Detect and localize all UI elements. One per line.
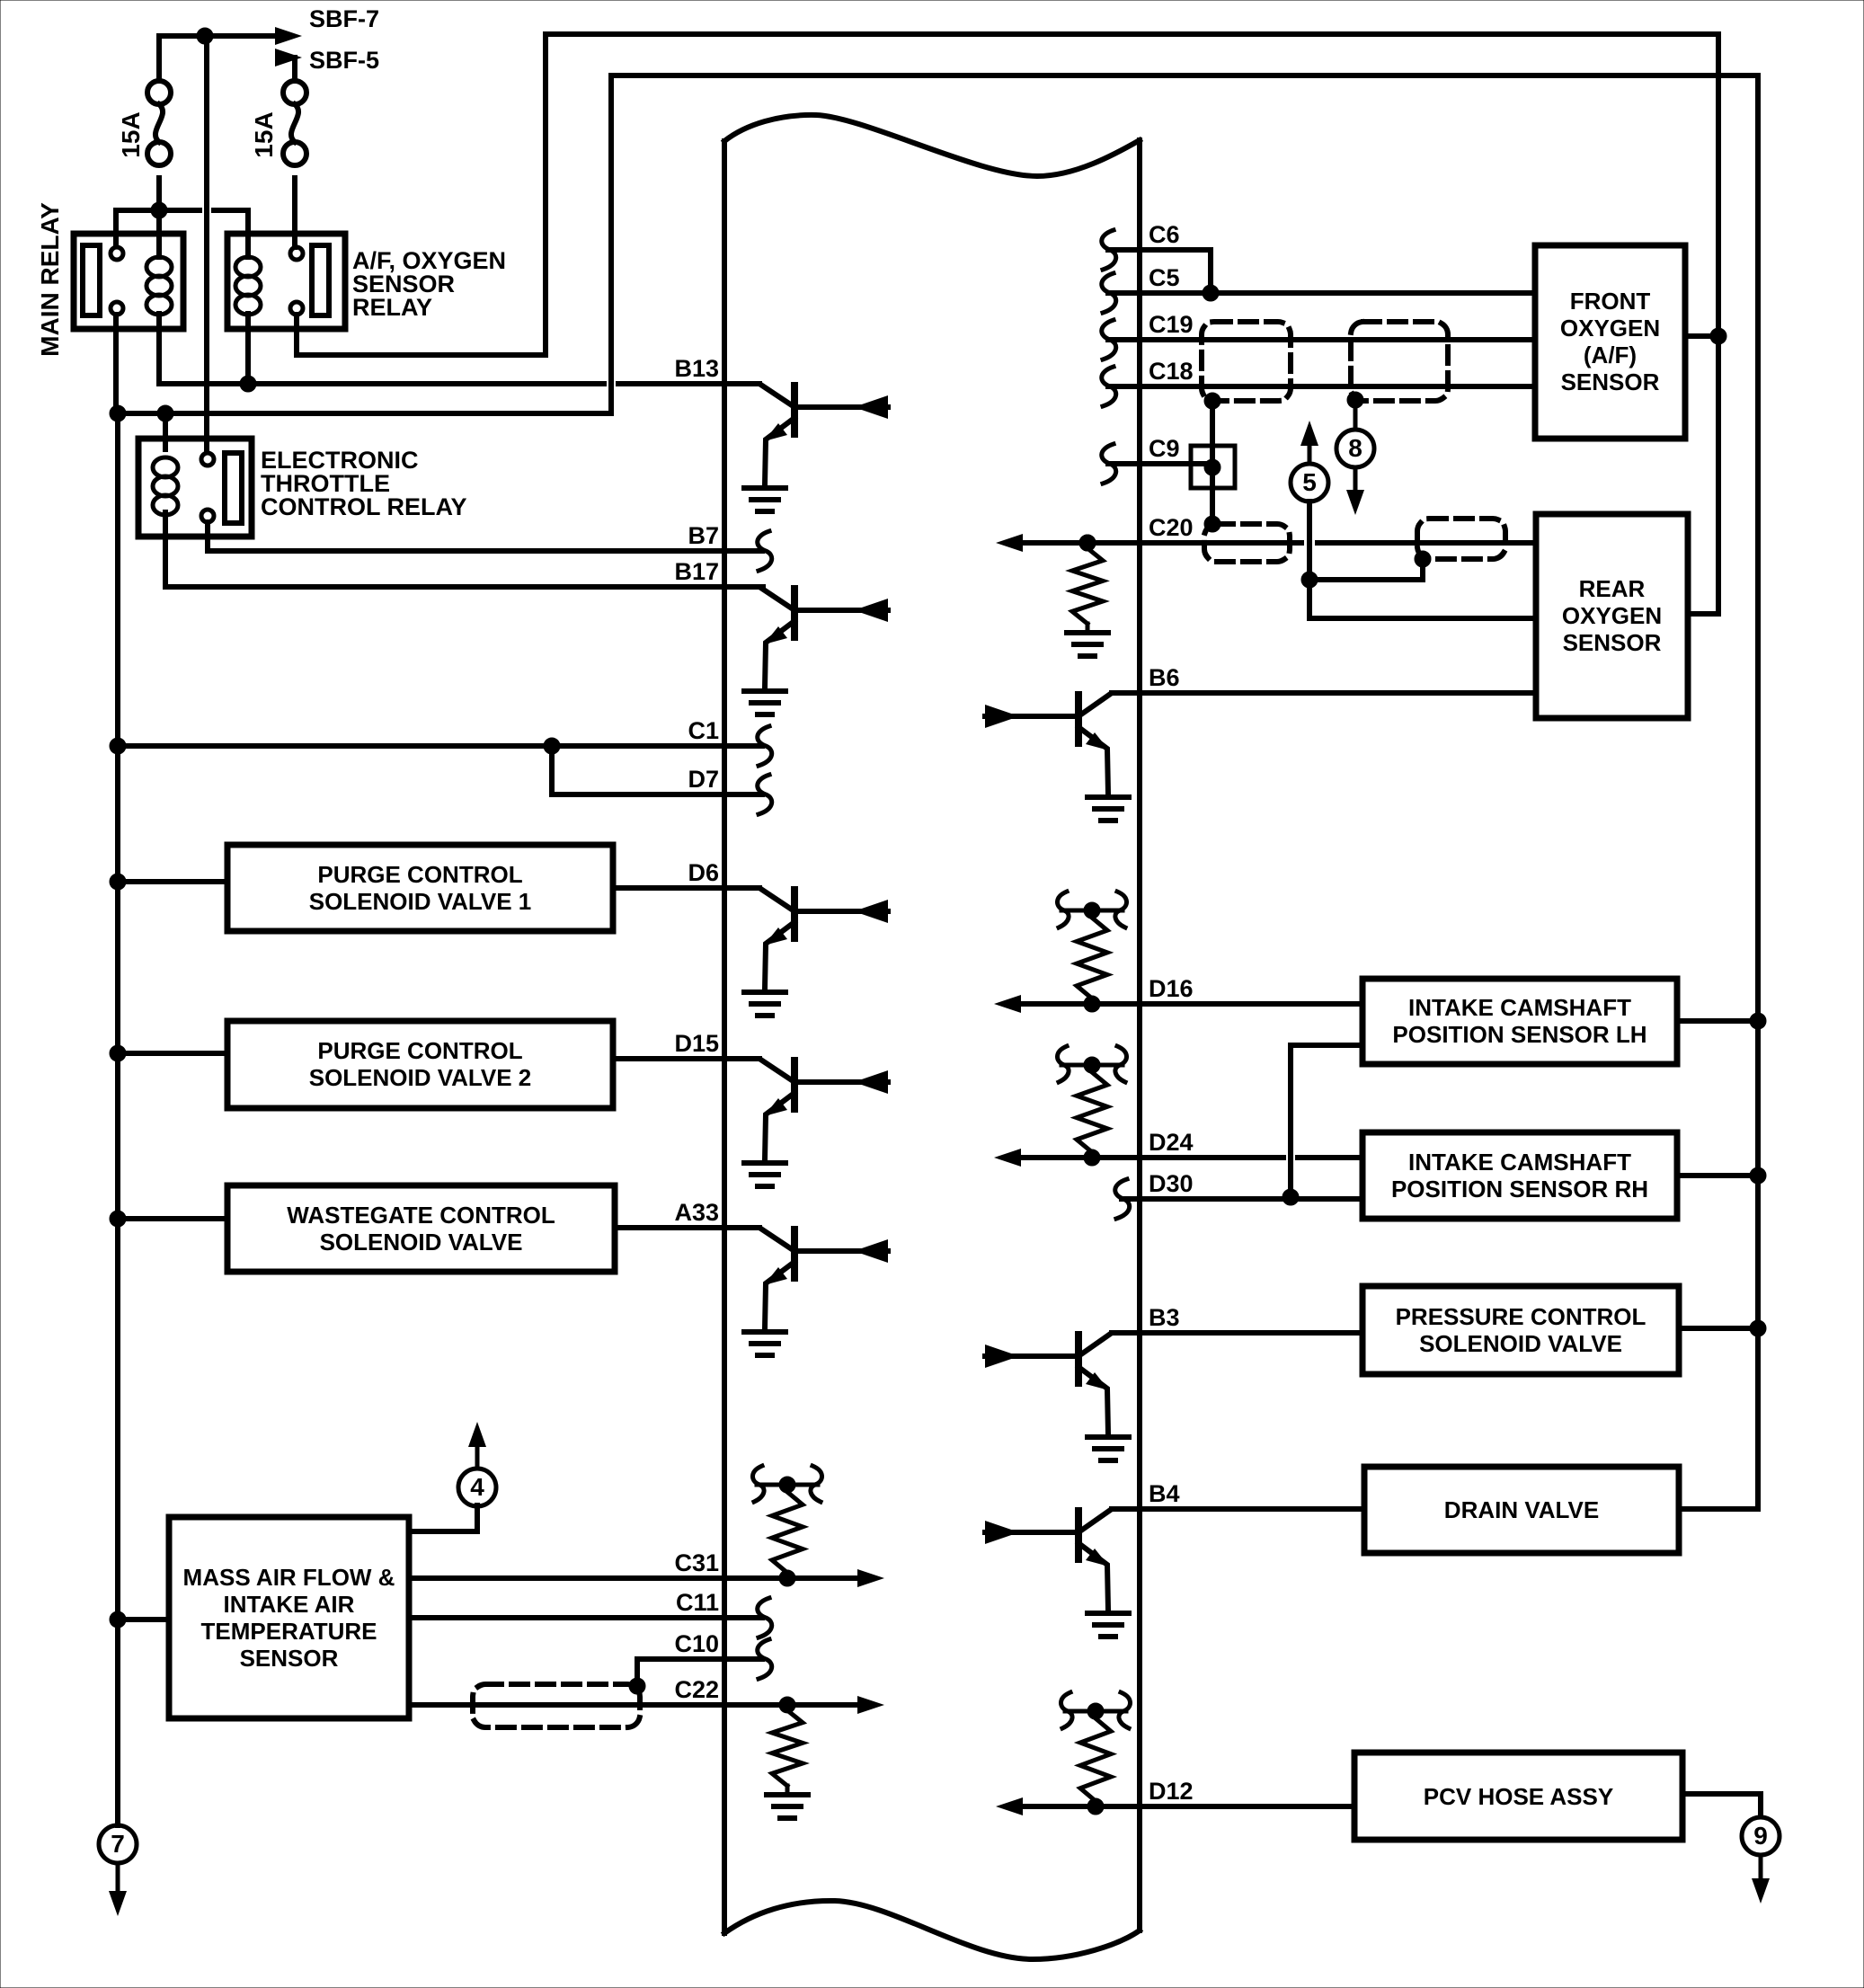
node: shield drain tap of C22 cable: [629, 1678, 645, 1694]
svg-text:D6: D6: [688, 859, 719, 886]
transistor Q7 (B3 pressure control driver): [985, 1333, 1140, 1433]
svg-text:C6: C6: [1149, 221, 1180, 248]
ground of Q8 (B4 drain valve driver): [1087, 1613, 1129, 1637]
component box: INTAKE CAMSHAFT POSITION SENSOR RH: [1362, 1132, 1677, 1219]
connector reference (4) MAF power: [458, 1469, 496, 1506]
ground of R6 (C22 load): [767, 1795, 808, 1818]
svg-text:SOLENOID VALVE: SOLENOID VALVE: [320, 1229, 523, 1256]
pin C18 continuation mark: [1102, 367, 1116, 406]
arrow to SBF-7: [275, 27, 302, 45]
node: LH sensor power junction: [1750, 1013, 1766, 1029]
svg-text:INTAKE AIR: INTAKE AIR: [224, 1591, 355, 1618]
A/F relay contact pin (lower): [290, 302, 303, 315]
wire: battery feed to SBF-7: [159, 36, 275, 81]
svg-text:SOLENOID VALVE: SOLENOID VALVE: [1419, 1330, 1622, 1357]
svg-text:C1: C1: [688, 717, 719, 744]
resistor R3 (D24 pull-up) (pull-up inside ECM): [1057, 1046, 1126, 1166]
svg-text:WASTEGATE CONTROL: WASTEGATE CONTROL: [287, 1202, 555, 1229]
arrow up from connector (5): [1300, 421, 1318, 463]
svg-text:SOLENOID VALVE 1: SOLENOID VALVE 1: [309, 888, 532, 915]
component box: INTAKE CAMSHAFT POSITION SENSOR LH: [1362, 979, 1677, 1064]
wire: ECM pin B4 to drain valve: [1112, 1506, 1364, 1512]
svg-text:SBF-5: SBF-5: [309, 47, 379, 74]
wire: bus to purge valve 1: [118, 879, 227, 884]
svg-text:B17: B17: [674, 558, 719, 585]
arrow up from connector (4): [468, 1422, 486, 1469]
wire: pressure control valve power pin: [1679, 1326, 1758, 1331]
connector reference (7) left bus continuation: [99, 1825, 137, 1863]
svg-text:B7: B7: [688, 522, 719, 549]
shield (shielded cable) S1 around C19/C18 near ECM: [1202, 322, 1291, 401]
svg-text:15A: 15A: [250, 111, 278, 157]
wire: MAF signal to ECM pin C31: [409, 1575, 787, 1581]
pin D30 continuation mark: [1115, 1179, 1130, 1219]
svg-text:C10: C10: [674, 1630, 719, 1657]
svg-text:D24: D24: [1149, 1129, 1194, 1156]
arrow down from connector (9): [1752, 1855, 1770, 1904]
svg-text:D12: D12: [1149, 1778, 1194, 1805]
svg-text:C31: C31: [674, 1549, 719, 1576]
resistor R5 (C31 pull-up) (pull-up inside ECM): [752, 1466, 821, 1586]
node: C5/C6 junction: [1203, 285, 1219, 301]
svg-text:5: 5: [1302, 468, 1317, 496]
pin D7 continuation mark: [758, 775, 772, 814]
ground of Q5 (A33 wastegate valve driver): [744, 1332, 786, 1355]
wire: shield drain to ECM pin C10: [637, 1659, 762, 1684]
node: pressure valve power junction: [1750, 1320, 1766, 1336]
connector reference (8) shield ground: [1336, 430, 1374, 467]
wire: main relay contact lower pin to left bus: [113, 315, 119, 413]
ground of R1 (C20 load): [1067, 633, 1108, 656]
svg-text:POSITION SENSOR RH: POSITION SENSOR RH: [1391, 1176, 1648, 1203]
arrow: D24 out to left: [994, 1149, 1021, 1167]
wire: bus to MAF sensor: [118, 1617, 169, 1622]
pin B7 continuation mark: [758, 531, 772, 571]
wire: ETC coil bottom to ECM pin B17: [165, 512, 763, 587]
wire: A/F relay contact output going to top rail: [297, 34, 546, 355]
wire: wastegate valve to ECM pin A33: [615, 1225, 759, 1230]
node: D30/LH-ground junction: [1283, 1189, 1299, 1205]
wire: fuse No.2 to SBF-5: [279, 58, 295, 81]
svg-text:SENSOR: SENSOR: [1563, 629, 1662, 656]
svg-text:C22: C22: [674, 1676, 719, 1703]
node: bus/purge2 junction: [110, 1045, 126, 1061]
svg-text:C5: C5: [1149, 264, 1180, 291]
transistor Q6 (B6 rear O2 heater driver): [985, 693, 1140, 794]
node: front O2 power junction: [1710, 328, 1726, 344]
wire: ECM pin C19 to front O2 sensor: [1108, 337, 1535, 342]
svg-text:C19: C19: [1149, 311, 1194, 338]
node: shield S1 drain: [1204, 393, 1220, 409]
svg-text:7: 7: [111, 1830, 125, 1858]
wire: C1 branch down to pin D7: [552, 746, 762, 794]
wire: ECM pin C5 to front O2 sensor: [1108, 290, 1535, 296]
node: bus/wastegate junction: [110, 1211, 126, 1227]
component box: MASS AIR FLOW & INTAKE AIR TEMPERATURE SENSOR: [169, 1517, 409, 1718]
svg-text:D7: D7: [688, 766, 719, 793]
wire: fuse No.1 to relay junction: [156, 178, 162, 257]
svg-text:SBF-7: SBF-7: [309, 5, 379, 32]
wire: camshaft sensor LH power pin: [1677, 1018, 1758, 1024]
svg-text:CONTROL RELAY: CONTROL RELAY: [261, 493, 467, 520]
wire: front oxygen sensor power pin: [1685, 333, 1718, 339]
component box: WASTEGATE CONTROL SOLENOID VALVE: [227, 1185, 615, 1272]
label ELECTRONIC THROTTLE CONTROL RELAY: [261, 447, 467, 520]
wire: left bus to ECM pin C1: [118, 743, 762, 749]
arrow down from connector (8): [1346, 467, 1364, 515]
resistor R1 (C20 load) (to ground inside ECM): [1072, 535, 1103, 631]
shield junction box on C9: [1191, 446, 1235, 488]
relay coil of ETC relay: [153, 457, 178, 515]
node: shield S4 drain: [1415, 551, 1431, 567]
node: C20 load junction: [1079, 535, 1096, 551]
wire: ECM pin D12 to PCV hose assy: [1021, 1804, 1354, 1809]
ground of Q4 (D15 purge valve 2 driver): [744, 1163, 786, 1186]
transistor Q2 (B17 ETC relay driver): [724, 587, 888, 688]
svg-text:15A: 15A: [117, 111, 145, 157]
wire: bus to purge valve 2: [118, 1051, 227, 1056]
svg-text:D15: D15: [674, 1030, 719, 1057]
component box: PURGE CONTROL SOLENOID VALVE 2: [227, 1021, 613, 1108]
svg-text:D16: D16: [1149, 975, 1194, 1002]
pin C5 continuation mark: [1102, 273, 1116, 313]
svg-text:TEMPERATURE: TEMPERATURE: [201, 1618, 377, 1645]
resistor R4 (D12 pull-up) (pull-up inside ECM): [1061, 1692, 1130, 1815]
wire: right power drop to oxygen sensors: [1716, 34, 1721, 614]
main relay contact pin (lower): [111, 302, 123, 315]
relay: ELECTRONIC THROTTLE CONTROL RELAY box: [138, 439, 252, 537]
component box: PURGE CONTROL SOLENOID VALVE 1: [227, 845, 613, 931]
wire: ECM pin B3 to pressure control solenoid valve: [1112, 1330, 1362, 1336]
wire: purge valve 1 to ECM pin D6: [613, 885, 759, 891]
shield (shielded cable) S3 around C20 near ECM: [1204, 524, 1290, 562]
ETC relay contact bar: [225, 453, 242, 523]
relay coil of A/F OXYGEN SENSOR RELAY: [235, 257, 261, 315]
node: bus/C1 junction: [110, 738, 126, 754]
svg-text:RELAY: RELAY: [352, 294, 432, 321]
component box: PRESSURE CONTROL SOLENOID VALVE: [1362, 1286, 1679, 1374]
ECM bottom torn edge: [724, 1901, 1140, 1959]
transistor Q8 (B4 drain valve driver): [985, 1509, 1140, 1610]
svg-text:MASS AIR FLOW &: MASS AIR FLOW &: [183, 1564, 395, 1591]
wire: center drop from SBF-7 junction to ETC contact: [204, 36, 209, 452]
A/F relay contact bar: [312, 245, 329, 315]
pin C19 continuation mark: [1102, 320, 1116, 359]
relay: A/F OXYGEN SENSOR RELAY box: [227, 234, 345, 329]
connector reference (5) O2 heater feed: [1291, 464, 1328, 501]
wire: fuse No.2 to A/F relay contact: [292, 178, 297, 247]
svg-text:9: 9: [1753, 1822, 1768, 1850]
pin C6 continuation mark: [1102, 230, 1116, 270]
node: RH sensor power junction: [1750, 1167, 1766, 1184]
wire: shield S2 drain to connector (8): [1354, 400, 1358, 430]
transistor Q5 (A33 wastegate valve driver): [724, 1228, 888, 1328]
svg-text:INTAKE CAMSHAFT: INTAKE CAMSHAFT: [1408, 994, 1631, 1021]
svg-text:SOLENOID VALVE 2: SOLENOID VALVE 2: [309, 1064, 532, 1091]
svg-text:B3: B3: [1149, 1304, 1180, 1331]
shield (shielded cable) S4 around C20 near sensor: [1417, 519, 1505, 559]
transistor Q1 (B13 main relay driver): [724, 384, 888, 484]
wire: MAF signal to ECM pin C11: [409, 1615, 762, 1620]
svg-text:(A/F): (A/F): [1584, 342, 1637, 368]
wire: main relay coil to junction wire: [156, 314, 162, 384]
wire: ECM pin C20 to rear O2 sensor (gap at crossing): [1016, 540, 1536, 546]
wire: bus to wastegate valve: [118, 1216, 227, 1221]
ground of Q1 (B13 main relay driver): [744, 488, 786, 511]
fuse No.1 15A: [147, 81, 171, 165]
wire: ETC coil top feed: [163, 413, 168, 449]
node: shield S2 drain: [1347, 392, 1363, 408]
main relay contact pin (upper): [111, 247, 123, 260]
ETC relay contact pin (upper): [201, 453, 214, 466]
svg-text:C20: C20: [1149, 514, 1194, 541]
ground of Q2 (B17 ETC relay driver): [744, 691, 786, 714]
svg-text:D30: D30: [1149, 1170, 1194, 1197]
wire: shield S4 drain link: [1309, 559, 1423, 580]
wire: relay control net to ECM pin B13 (gaps at crossings): [159, 381, 759, 386]
wire: top rail to front oxygen sensor power: [546, 31, 1718, 37]
arrow to SBF-5: [275, 49, 302, 67]
node: C9 shield junction: [1204, 459, 1220, 475]
wire: rear oxygen sensor power pin: [1688, 611, 1718, 617]
arrow: C31 signal into ECM: [787, 1569, 884, 1587]
svg-text:B4: B4: [1149, 1480, 1180, 1507]
wire: ECM pin D24 to intake camshaft position sensor RH (gap at crossing): [1021, 1155, 1362, 1160]
svg-text:C18: C18: [1149, 358, 1194, 385]
ground of Q7 (B3 pressure control driver): [1087, 1437, 1129, 1460]
wire: ECM pin D30 to camshaft sensor RH ground: [1122, 1196, 1362, 1202]
node: junction on SBF-7 feed: [197, 28, 213, 44]
svg-text:B6: B6: [1149, 664, 1180, 691]
arrow: D12 out to left: [996, 1797, 1023, 1815]
connector reference (9) PCV continuation: [1742, 1817, 1780, 1855]
wire: ECM pin C6 joining C5: [1108, 250, 1211, 293]
ECM (engine control module) left edge: [722, 141, 727, 1933]
wire: A/F relay coil bottom to relay-control net: [245, 314, 251, 384]
node: bus/MAF junction: [110, 1611, 126, 1628]
svg-text:A33: A33: [674, 1199, 719, 1226]
svg-text:OXYGEN: OXYGEN: [1562, 602, 1662, 629]
svg-text:DRAIN VALVE: DRAIN VALVE: [1444, 1496, 1599, 1523]
wire: purge valve 2 to ECM pin D15: [613, 1056, 759, 1061]
wire: MAF sensor to connector (4): [409, 1505, 477, 1531]
component box: FRONT OXYGEN (A/F) SENSOR: [1535, 245, 1685, 439]
wire: ETC contact lower pin to ECM pin B7: [208, 522, 762, 551]
component box: REAR OXYGEN SENSOR: [1536, 514, 1688, 718]
pin C1 continuation mark: [758, 726, 772, 766]
wire: ECM pin D16 to intake camshaft position sensor LH: [1021, 1001, 1362, 1007]
wire: MAF signal to ECM pin C22: [409, 1702, 787, 1708]
svg-text:MAIN RELAY: MAIN RELAY: [36, 202, 64, 357]
wire: drain valve power pin: [1679, 1506, 1758, 1512]
main relay contact bar: [83, 245, 100, 315]
wire: ECM pin C18 to front O2 sensor: [1108, 384, 1535, 389]
ground of Q6 (B6 rear O2 heater driver): [1087, 797, 1129, 821]
wire: ECM pin B6 to rear O2 sensor: [1112, 690, 1536, 696]
svg-text:SENSOR: SENSOR: [240, 1645, 339, 1672]
wire: right feed drop to output devices: [1755, 75, 1761, 1509]
A/F relay contact pin (upper): [290, 247, 303, 260]
svg-text:REAR: REAR: [1579, 575, 1646, 602]
wire: camshaft sensor LH ground to D30 net: [1291, 1045, 1362, 1197]
transistor Q3 (D6 purge valve 1 driver): [724, 888, 888, 989]
node: ETC coil feed junction: [157, 405, 173, 422]
node: C1/D7 branch junction: [544, 738, 560, 754]
node: bus/purge1 junction: [110, 874, 126, 890]
svg-text:FRONT: FRONT: [1570, 288, 1651, 315]
wire: connector (5) down to rear O2 sensor heater: [1307, 501, 1312, 618]
svg-text:PURGE CONTROL: PURGE CONTROL: [317, 1037, 522, 1064]
node: shield S3 drain: [1204, 516, 1220, 532]
pin C11 continuation mark: [758, 1598, 772, 1637]
relay: MAIN RELAY box: [74, 234, 183, 329]
wire: shield drain S1 to C9 and C20 shield: [1210, 401, 1215, 524]
arrow down from connector (7): [109, 1863, 127, 1916]
svg-text:C9: C9: [1149, 435, 1180, 462]
resistor R6 (C22 load) (to ground inside ECM): [772, 1697, 803, 1793]
node: heater/shield junction: [1301, 572, 1318, 588]
arrow: C22 signal into ECM: [787, 1696, 884, 1714]
fuse No.2 15A: [283, 81, 306, 165]
wire: camshaft sensor RH power pin: [1677, 1173, 1758, 1178]
arrow: D16 out to left: [994, 995, 1021, 1013]
relay coil of MAIN RELAY: [146, 257, 172, 315]
label A/F, OXYGEN SENSOR RELAY: [352, 247, 506, 321]
node: left bus top junction: [110, 405, 126, 422]
svg-text:PCV HOSE ASSY: PCV HOSE ASSY: [1424, 1783, 1613, 1810]
node: fuse/relay-coil junction: [151, 202, 167, 218]
svg-text:POSITION SENSOR LH: POSITION SENSOR LH: [1392, 1021, 1647, 1048]
shield (shielded cable) S2 around C19/C18 near sensor: [1351, 322, 1448, 401]
ETC relay contact pin (lower): [201, 510, 214, 522]
shield (shielded cable) around MAF C22 signal: [473, 1684, 640, 1727]
component box: PCV HOSE ASSY: [1354, 1753, 1682, 1840]
wire: ECM pin C9 (shield ground): [1108, 461, 1212, 466]
node: junction coil bottoms: [240, 376, 256, 392]
pin C9 continuation mark: [1102, 444, 1116, 484]
pin C10 continuation mark: [758, 1639, 772, 1679]
svg-text:PRESSURE CONTROL: PRESSURE CONTROL: [1396, 1303, 1647, 1330]
arrow: C20 out to left: [996, 534, 1023, 552]
component box: DRAIN VALVE: [1364, 1467, 1679, 1553]
svg-text:4: 4: [470, 1473, 484, 1501]
svg-text:SENSOR: SENSOR: [1561, 368, 1660, 395]
wire: left power bus: [115, 413, 120, 1825]
wire: heater feed to rear O2 sensor: [1309, 616, 1536, 621]
svg-text:OXYGEN: OXYGEN: [1560, 315, 1660, 342]
svg-text:PURGE CONTROL: PURGE CONTROL: [317, 861, 522, 888]
wire: main relay contact pin / A-F relay coil feed (gap at crossing): [116, 210, 248, 257]
ECM right edge: [1137, 140, 1142, 1930]
ground of Q3 (D6 purge valve 1 driver): [744, 992, 786, 1016]
wire: PCV hose assy to connector (9): [1682, 1794, 1761, 1816]
svg-text:B13: B13: [674, 355, 719, 382]
transistor Q4 (D15 purge valve 2 driver): [724, 1059, 888, 1159]
svg-text:INTAKE CAMSHAFT: INTAKE CAMSHAFT: [1408, 1149, 1631, 1176]
svg-text:C11: C11: [676, 1589, 719, 1616]
ECM top torn edge: [724, 115, 1140, 176]
svg-text:8: 8: [1348, 434, 1362, 462]
resistor R2 (D16 pull-up) (pull-up inside ECM): [1057, 892, 1126, 1012]
wire: ignition feed rail to sensors (lower top rail): [611, 75, 1758, 413]
wire: bus branch to ETC relay coil: [118, 411, 611, 416]
